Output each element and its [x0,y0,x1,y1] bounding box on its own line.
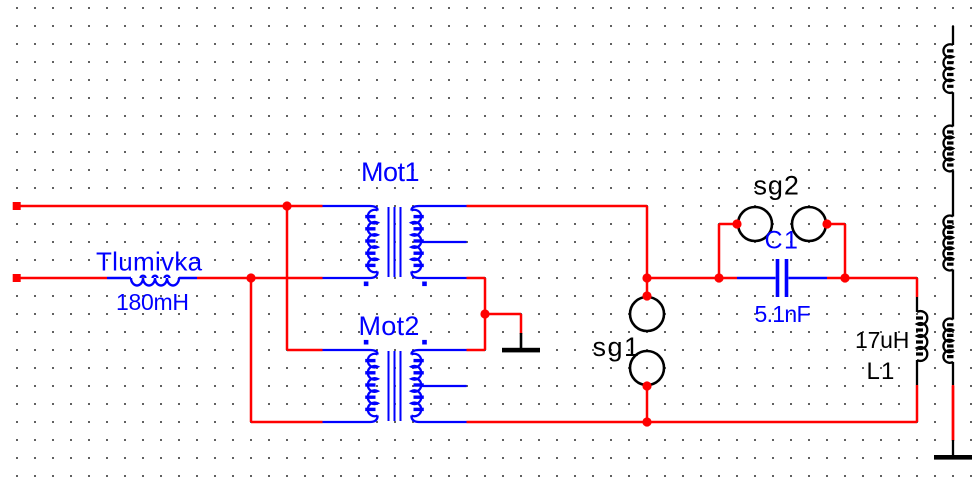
transformer Mot1 phase dot right [422,282,427,287]
secondary coil section 2 [943,126,953,172]
spark gap sg1 bottom electrode [630,351,664,385]
wire Tlumivka to Mot1 bottom-left [197,277,323,280]
wire sg2 left branch [719,224,737,278]
spark gap sg2 right electrode [792,207,826,241]
junction sg1 top pin (647,296) [642,291,651,300]
junction sg2 right pin (827,224) [822,219,831,228]
junction at node A (287,206) [282,201,291,210]
junction sg2 left pin (737,224) [732,219,741,228]
svg-text:Tlumivka: Tlumivka [96,247,203,277]
capacitor C1 plate right [785,259,789,297]
wire second bus left of Tlumivka [17,277,107,280]
terminal pin left top [13,202,21,210]
secondary coil spine [952,26,954,455]
junction (485,314) [480,309,489,318]
junction (647,422) [642,417,651,426]
transformer Mot1 [323,206,467,278]
ground G1 bar [502,348,540,353]
junction (719,278) [714,273,723,282]
svg-text:L1: L1 [867,358,896,385]
svg-text:Mot2: Mot2 [359,311,420,341]
svg-text:sg2: sg2 [754,171,800,201]
wire ground branch [485,314,521,334]
svg-text:5.1nF: 5.1nF [755,301,811,327]
wire sg1 top stub [646,278,649,296]
transformer Mot2 phase dot left [364,340,369,345]
wire sg2 right branch [827,224,845,278]
secondary coil section 3 [943,216,953,271]
inductor Tlumivka symbol [107,276,197,286]
junction (845,278) [840,273,849,282]
secondary coil section 1 [943,44,953,93]
wire vertical from node A down to Mot2 top-left [287,206,323,350]
wire C1 left red segment [647,277,737,280]
transformer Mot2 [323,350,467,422]
ground G1 stub [520,333,523,349]
inductor L1 [916,297,927,385]
spark gap sg2 left electrode [738,207,772,241]
wire red segment over secondary (drawn above black spine) [952,386,955,440]
wire top bus left segment [17,205,323,208]
secondary coil section 4 [943,319,953,363]
wire secondary coil to ground [952,385,955,441]
wire Mot1 top-right to sg1 column [467,206,648,278]
capacitor C1 leads [737,277,827,279]
wire bottom bus [467,385,918,422]
terminal pin left bottom [13,274,21,282]
transformer Mot1 phase dot left [364,282,369,287]
svg-text:sg1: sg1 [593,332,641,362]
spark gap sg1 top electrode [630,297,664,331]
svg-text:C1: C1 [765,227,800,255]
svg-text:17uH: 17uH [855,327,909,353]
svg-text:Mot1: Mot1 [361,157,419,187]
junction (251,278) [246,273,255,282]
junction sg1 bottom pin (647,386) [642,381,651,390]
capacitor C1 plate left [776,259,780,297]
wire vertical to Mot2 bottom-left [251,278,323,422]
ground G2 bar [934,455,972,460]
wire Mot1 bottom-right / Mot2 top-right link [467,278,486,350]
wire C1 right red segment to L1 [827,278,917,297]
transformer Mot2 phase dot right [422,340,427,345]
svg-text:180mH: 180mH [116,289,189,315]
junction (647,278) [642,273,651,282]
wire sg1 bottom stub [646,386,649,422]
